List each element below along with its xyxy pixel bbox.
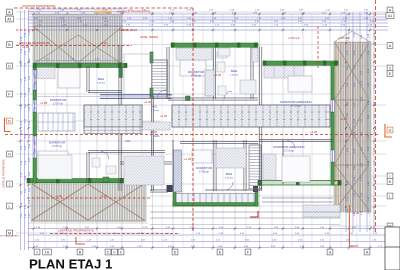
svg-text:C: C xyxy=(113,250,116,254)
svg-text:BAIE: BAIE xyxy=(226,172,233,176)
svg-text:H: H xyxy=(366,250,369,254)
svg-text:L: L xyxy=(389,194,391,198)
svg-text:BAIE: BAIE xyxy=(231,69,238,73)
svg-text:+2.30: +2.30 xyxy=(144,100,152,104)
svg-text:+2.30: +2.30 xyxy=(310,130,318,134)
svg-text:H: H xyxy=(8,152,11,156)
svg-text:M: M xyxy=(8,231,11,235)
svg-text:PLAN ETAJ 1: PLAN ETAJ 1 xyxy=(29,257,112,270)
svg-text:+2.30: +2.30 xyxy=(184,157,192,161)
svg-text:4.50 mp: 4.50 mp xyxy=(97,83,106,85)
svg-text:4.50 mp: 4.50 mp xyxy=(225,178,234,180)
svg-text:C: C xyxy=(389,66,392,70)
svg-text:BAIE: BAIE xyxy=(98,77,105,81)
svg-text:D: D xyxy=(8,119,11,123)
svg-text:4.50 mp: 4.50 mp xyxy=(230,75,239,77)
svg-text:17.07 mp: 17.07 mp xyxy=(53,103,64,106)
svg-text:HOL: HOL xyxy=(152,105,158,109)
svg-text:17.50 mp: 17.50 mp xyxy=(199,171,210,174)
svg-text:DORMITOR: DORMITOR xyxy=(50,98,67,102)
svg-text:+5.15: +5.15 xyxy=(100,194,108,198)
svg-text:27.21 mp: 27.21 mp xyxy=(291,105,302,108)
svg-text:LIMITA DE PROPRIETATE: LIMITA DE PROPRIETATE xyxy=(22,4,56,8)
svg-text:HOL: HOL xyxy=(154,134,160,138)
svg-text:HOL: HOL xyxy=(125,139,131,143)
svg-text:27.21 mp: 27.21 mp xyxy=(284,150,295,153)
svg-text:+2.30: +2.30 xyxy=(55,194,63,198)
svg-text:C: C xyxy=(107,250,110,254)
svg-text:NIVEL TEREN: NIVEL TEREN xyxy=(140,35,158,39)
svg-text:5.10 mp: 5.10 mp xyxy=(151,110,160,112)
svg-text:DORMITOR+DRESSING: DORMITOR+DRESSING xyxy=(273,145,304,149)
svg-text:17.50 mp: 17.50 mp xyxy=(191,75,202,78)
svg-text:A1: A1 xyxy=(7,17,11,21)
svg-text:DORMITOR: DORMITOR xyxy=(49,141,66,145)
svg-text:+5.15: +5.15 xyxy=(100,41,108,45)
svg-text:L: L xyxy=(9,204,11,208)
svg-text:LIMITA DE PROPRIETATE: LIMITA DE PROPRIETATE xyxy=(3,159,6,188)
svg-text:DORMITOR: DORMITOR xyxy=(188,70,205,74)
svg-text:D: D xyxy=(8,64,11,68)
svg-text:DORMITOR: DORMITOR xyxy=(196,166,213,170)
svg-text:C: C xyxy=(120,250,123,254)
svg-text:1: 1 xyxy=(36,250,38,254)
svg-text:D: D xyxy=(174,250,177,254)
svg-text:+2.30: +2.30 xyxy=(160,114,168,118)
svg-text:LIMITA DE PROPRIETATE: LIMITA DE PROPRIETATE xyxy=(58,229,94,233)
svg-text:DORMITOR+DRESSING: DORMITOR+DRESSING xyxy=(280,100,311,104)
svg-text:G: G xyxy=(329,250,332,254)
svg-text:J: J xyxy=(9,182,11,186)
svg-text:A1: A1 xyxy=(388,14,392,18)
svg-text:+2.95 S-E: +2.95 S-E xyxy=(288,36,300,40)
svg-text:+2.95 +5.15: +2.95 +5.15 xyxy=(121,28,137,32)
svg-text:I: I xyxy=(390,174,391,178)
svg-text:+2.85: +2.85 xyxy=(40,101,48,105)
svg-text:+2.95: +2.95 xyxy=(214,73,222,77)
svg-text:G: G xyxy=(389,128,392,132)
svg-text:+5.15: +5.15 xyxy=(333,179,341,183)
svg-text:1A: 1A xyxy=(45,250,50,254)
svg-text:17.07 mp: 17.07 mp xyxy=(52,145,63,148)
